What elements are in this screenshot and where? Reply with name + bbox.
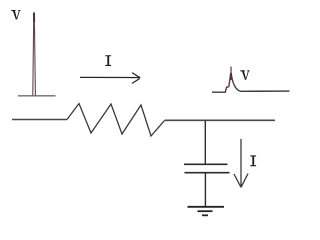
wire node to capacitor (204, 120, 206, 164)
ground bar 3 (202, 214, 208, 216)
capacitor C top plate (184, 163, 228, 165)
current arrow I (down, into capacitor) (234, 139, 248, 187)
output waveform baseline right (240, 90, 290, 92)
resistor R (67, 104, 165, 137)
node Vin label V (11, 10, 20, 19)
node Vout label V (240, 70, 249, 79)
wire left (12, 119, 67, 121)
input waveform baseline (18, 95, 56, 97)
ground bar 2 (198, 210, 213, 212)
wire right (165, 119, 276, 121)
output spike top line (230, 67, 232, 81)
label I (down arrow) (250, 155, 256, 166)
input impulse waveform spike (33, 19, 36, 96)
wire capacitor to ground (204, 173, 206, 207)
output waveform baseline left (212, 87, 229, 92)
label I (top arrow) (105, 55, 111, 66)
output spike rising edge (red) (229, 73, 231, 87)
capacitor C bottom plate (185, 172, 230, 174)
ground bar 1 (188, 206, 225, 208)
output spike decay tail (231, 73, 240, 91)
input impulse spike dark cap (33, 13, 35, 23)
current arrow I (top, pointing right) (80, 73, 140, 84)
